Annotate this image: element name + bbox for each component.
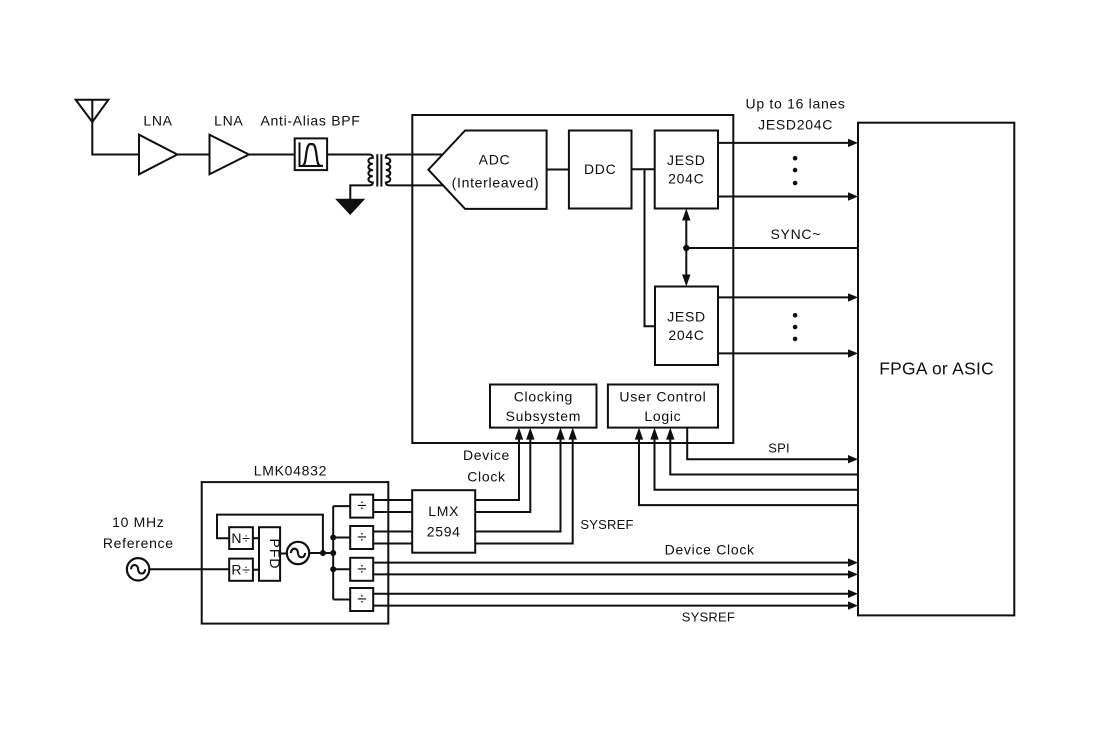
arrowhead lane 2 — [848, 192, 858, 200]
wire DDC to JESD1 — [632, 168, 655, 170]
svg-text:÷: ÷ — [357, 590, 366, 609]
sysref wire pair to FPGA — [373, 594, 849, 606]
arrowhead device clock A — [848, 558, 858, 566]
ADC device container box — [412, 115, 733, 443]
svg-text:LNA: LNA — [143, 113, 172, 129]
wire reference to R divider — [149, 568, 229, 570]
FPGA or ASIC box — [858, 123, 1014, 616]
svg-text:2594: 2594 — [427, 523, 461, 539]
JESD204C block 1 — [655, 131, 718, 209]
arrowhead UCL input 1 — [666, 428, 674, 440]
arrowhead clock input 3 — [556, 428, 564, 440]
svg-text:PFD: PFD — [267, 539, 283, 570]
DDC block — [569, 131, 632, 209]
svg-text:N÷: N÷ — [231, 530, 250, 546]
wire LNA1 to LNA2 — [177, 154, 209, 156]
svg-text:LNA: LNA — [214, 113, 243, 129]
arrowhead sysref B — [848, 601, 858, 609]
SPI wire — [687, 428, 849, 460]
reference oscillator — [127, 558, 149, 580]
arrowhead clock input 2 — [526, 428, 534, 440]
divider bus — [333, 506, 350, 599]
wire antenna to LNA1 — [91, 154, 139, 156]
wire transformer to ADC bottom — [389, 184, 444, 186]
svg-text:SYNC~: SYNC~ — [771, 226, 822, 242]
wire transformer to ground — [350, 185, 369, 200]
divider box 2 — [350, 526, 373, 549]
svg-text:Up to 16 lanes: Up to 16 lanes — [746, 96, 846, 112]
wire VCO to divider bus — [309, 552, 334, 554]
svg-text:ADC: ADC — [479, 152, 511, 168]
junction dot feedback tap — [320, 550, 326, 556]
divider box 4 — [350, 588, 373, 611]
svg-text:(Interleaved): (Interleaved) — [452, 174, 540, 190]
junction dot bus A — [330, 535, 336, 541]
junction dot bus B — [330, 550, 336, 556]
LMX 2594 box — [412, 490, 475, 553]
svg-text:204C: 204C — [668, 327, 704, 343]
Clocking Subsystem box — [490, 385, 597, 428]
User Control Logic box — [608, 385, 718, 428]
arrowhead JESD link up — [682, 209, 690, 221]
arrowhead lane 3 — [848, 293, 858, 301]
ellipsis dots lanes 1 — [793, 156, 798, 185]
lane wire 3 — [718, 296, 849, 298]
divider box 1 — [350, 495, 373, 518]
clock input wire 2 — [475, 437, 530, 512]
junction dot SYNC — [683, 245, 689, 251]
wire R to PFD — [253, 569, 259, 571]
antenna — [76, 100, 109, 155]
junction dot bus C — [330, 566, 336, 572]
ADC (Interleaved) block — [428, 131, 546, 209]
svg-text:SYSREF: SYSREF — [682, 609, 735, 624]
arrowhead sysref A — [848, 590, 858, 598]
divider1 output pair to LMX — [373, 500, 412, 512]
svg-text:Subsystem: Subsystem — [506, 408, 582, 424]
lane wire 1 — [718, 142, 849, 144]
svg-text:LMK04832: LMK04832 — [254, 462, 327, 478]
clock input wire 3 — [475, 437, 560, 532]
wire ADC to DDC — [547, 169, 569, 171]
amplifier LNA1 — [139, 135, 177, 175]
arrowhead UCL input 2 — [650, 428, 658, 440]
svg-text:R÷: R÷ — [231, 562, 250, 578]
svg-text:Reference: Reference — [103, 535, 174, 551]
arrowhead clock input 4 — [569, 428, 577, 440]
svg-text:Logic: Logic — [644, 408, 681, 424]
divider box 3 — [350, 558, 373, 581]
arrowhead device clock B — [848, 570, 858, 578]
amplifier LNA2 — [210, 135, 249, 175]
svg-text:JESD: JESD — [667, 152, 706, 168]
wire PFD to VCO — [280, 553, 287, 555]
wire BPF to transformer — [327, 154, 369, 156]
wire LNA2 to BPF — [249, 154, 295, 156]
lane wire 4 — [718, 352, 849, 354]
arrowhead clock input 1 — [515, 428, 523, 440]
feedback wire to N divider — [217, 515, 323, 553]
divider2 output pair to LMX — [373, 532, 412, 544]
SYNC~ wire — [686, 247, 858, 249]
svg-text:User Control: User Control — [619, 389, 706, 405]
svg-text:DDC: DDC — [584, 161, 616, 177]
svg-text:204C: 204C — [668, 171, 704, 187]
UCL input wire 2 — [655, 437, 859, 490]
svg-text:SYSREF: SYSREF — [580, 517, 633, 532]
svg-text:JESD: JESD — [667, 308, 706, 324]
JESD interconnect double arrow — [685, 217, 687, 278]
ground — [337, 200, 363, 214]
svg-text:÷: ÷ — [357, 559, 366, 578]
JESD204C block 2 — [655, 287, 718, 366]
ellipsis dots lanes 2 — [793, 313, 798, 341]
arrowhead lane 1 — [848, 139, 858, 147]
svg-text:Device: Device — [463, 447, 510, 463]
N divider box — [229, 527, 253, 549]
svg-text:÷: ÷ — [357, 528, 366, 547]
arrowhead JESD link down — [682, 275, 690, 287]
clock input wire 4 — [475, 437, 573, 544]
filter Anti-Alias BPF — [295, 138, 327, 170]
R divider box — [229, 559, 253, 581]
svg-text:Clocking: Clocking — [514, 389, 573, 405]
svg-text:Clock: Clock — [467, 469, 506, 485]
LMK04832 box — [202, 482, 389, 623]
arrowhead lane 4 — [848, 349, 858, 357]
wire DDC branch to JESD2 — [645, 169, 656, 326]
svg-text:JESD204C: JESD204C — [758, 117, 833, 133]
UCL input wire 1 — [670, 437, 858, 475]
wire transformer to ADC top — [389, 154, 443, 156]
wire N to PFD — [253, 537, 259, 539]
svg-text:10 MHz: 10 MHz — [112, 514, 164, 530]
svg-text:LMX: LMX — [428, 503, 459, 519]
arrowhead UCL input 3 — [635, 428, 643, 440]
device clock wire pair to FPGA — [373, 563, 849, 575]
svg-text:Device Clock: Device Clock — [665, 542, 755, 558]
svg-text:÷: ÷ — [357, 496, 366, 515]
PFD box — [259, 527, 280, 581]
lane wire 2 — [718, 196, 849, 198]
UCL input wire 3 — [639, 437, 858, 505]
svg-text:FPGA or ASIC: FPGA or ASIC — [879, 359, 994, 379]
transformer T1 — [368, 154, 390, 186]
arrowhead SPI — [848, 455, 858, 463]
svg-text:Anti-Alias BPF: Anti-Alias BPF — [260, 113, 360, 129]
clock input wire 1 — [475, 437, 519, 500]
svg-text:SPI: SPI — [768, 441, 790, 456]
VCO oscillator — [287, 542, 309, 564]
